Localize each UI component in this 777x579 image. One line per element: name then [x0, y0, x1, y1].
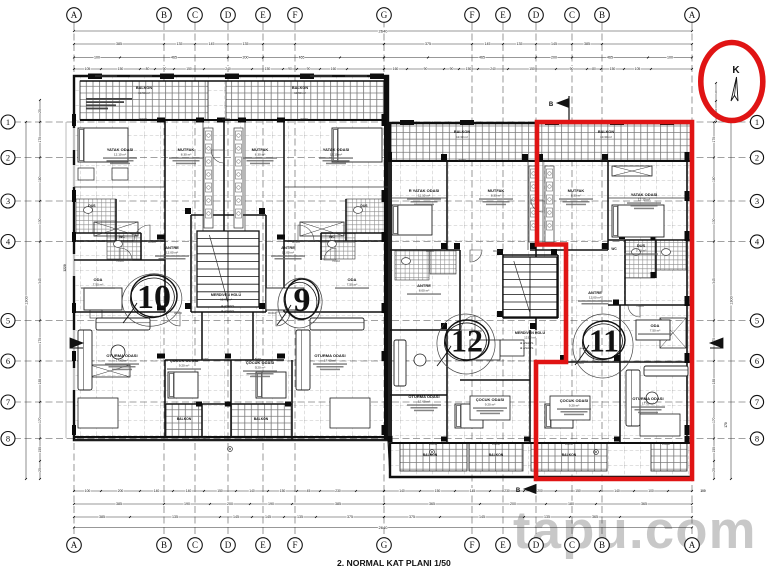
svg-text:150: 150	[38, 447, 42, 453]
svg-text:MUTFAK: MUTFAK	[568, 188, 585, 193]
svg-text:ODA: ODA	[651, 323, 660, 328]
svg-text:200: 200	[537, 489, 543, 493]
svg-text:1: 1	[755, 117, 759, 127]
svg-text:70/210: 70/210	[332, 259, 340, 263]
svg-text:90: 90	[424, 67, 428, 71]
svg-text:C: C	[192, 10, 198, 20]
svg-text:230: 230	[504, 489, 510, 493]
svg-text:BALKON: BALKON	[562, 453, 577, 457]
svg-text:145: 145	[470, 489, 476, 493]
svg-text:145: 145	[265, 515, 271, 519]
svg-text:5: 5	[6, 316, 10, 326]
svg-text:OTURMA ODASI: OTURMA ODASI	[408, 394, 439, 399]
svg-text:6: 6	[6, 356, 10, 366]
svg-text:365: 365	[592, 515, 598, 519]
svg-text:160/60: 160/60	[565, 442, 573, 446]
svg-text:F: F	[292, 540, 297, 550]
svg-text:80/60: 80/60	[202, 357, 209, 361]
svg-text:170: 170	[712, 137, 716, 143]
svg-text:B: B	[161, 540, 167, 550]
svg-text:G: G	[381, 540, 388, 550]
svg-text:90: 90	[307, 67, 311, 71]
svg-text:C: C	[569, 540, 575, 550]
svg-text:6: 6	[755, 356, 759, 366]
svg-text:DUS: DUS	[637, 243, 646, 248]
svg-text:70/210: 70/210	[116, 259, 124, 263]
svg-text:90/210: 90/210	[292, 240, 300, 244]
svg-text:375: 375	[347, 515, 353, 519]
svg-text:240: 240	[225, 67, 231, 71]
svg-text:150: 150	[435, 489, 441, 493]
svg-text:D: D	[225, 540, 232, 550]
svg-text:YATAK ODASI: YATAK ODASI	[323, 147, 350, 152]
svg-text:E: E	[260, 540, 266, 550]
svg-text:DUS: DUS	[88, 204, 96, 208]
svg-text:145: 145	[485, 42, 491, 46]
svg-text:12.10 m²: 12.10 m²	[638, 197, 650, 201]
svg-text:160/60: 160/60	[492, 442, 500, 446]
svg-text:375: 375	[409, 515, 415, 519]
svg-text:365: 365	[429, 502, 435, 506]
svg-text:5: 5	[755, 316, 759, 326]
svg-text:20: 20	[38, 468, 42, 472]
svg-text:MUTFAK: MUTFAK	[178, 147, 195, 152]
svg-text:180: 180	[568, 502, 574, 506]
svg-text:OTURMA ODASI: OTURMA ODASI	[314, 353, 345, 358]
svg-text:2: 2	[6, 153, 10, 163]
svg-text:190: 190	[268, 502, 274, 506]
svg-text:385: 385	[116, 502, 122, 506]
svg-text:90/210: 90/210	[268, 311, 276, 315]
svg-text:12.00 m²: 12.00 m²	[220, 298, 232, 302]
svg-text:150: 150	[217, 489, 223, 493]
svg-text:WC: WC	[611, 247, 617, 251]
svg-text:20: 20	[712, 468, 716, 472]
svg-text:145: 145	[209, 42, 215, 46]
svg-text:B: B	[599, 10, 605, 20]
svg-text:105: 105	[85, 67, 91, 71]
svg-text:385: 385	[584, 42, 590, 46]
svg-text:100: 100	[648, 489, 654, 493]
svg-text:10: 10	[137, 279, 171, 316]
svg-text:B: B	[549, 102, 554, 108]
svg-text:8.30 m²: 8.30 m²	[255, 152, 266, 156]
svg-text:345: 345	[712, 278, 716, 284]
svg-text:F: F	[469, 540, 474, 550]
svg-text:3: 3	[755, 196, 759, 206]
svg-text:135: 135	[177, 42, 183, 46]
svg-text:ÇOCUK ODASI: ÇOCUK ODASI	[476, 397, 504, 402]
svg-text:150: 150	[186, 67, 192, 71]
svg-text:145: 145	[233, 515, 239, 519]
svg-text:1: 1	[6, 117, 10, 127]
svg-text:8.30 m²: 8.30 m²	[491, 193, 502, 197]
svg-text:BALKON: BALKON	[136, 86, 152, 90]
svg-text:230: 230	[335, 489, 341, 493]
svg-text:465: 465	[607, 56, 613, 60]
svg-text:160: 160	[331, 67, 337, 71]
svg-text:E: E	[500, 540, 506, 550]
svg-text:150: 150	[575, 489, 581, 493]
svg-text:10.50 m²: 10.50 m²	[294, 91, 306, 95]
svg-text:90: 90	[288, 67, 292, 71]
svg-text:90: 90	[570, 67, 574, 71]
svg-text:7: 7	[6, 397, 10, 407]
svg-text:12.10 m²: 12.10 m²	[114, 152, 126, 156]
svg-text:25: 25	[38, 109, 42, 113]
svg-text:ANTRE: ANTRE	[281, 245, 295, 250]
svg-text:200/60: 200/60	[139, 117, 147, 121]
svg-text:150: 150	[280, 489, 286, 493]
svg-text:7.50 m²: 7.50 m²	[93, 282, 104, 286]
svg-text:170: 170	[38, 338, 42, 344]
svg-text:9.20 m²: 9.20 m²	[179, 363, 190, 367]
svg-text:100: 100	[85, 489, 91, 493]
svg-text:F: F	[292, 10, 297, 20]
svg-text:12.60 m²: 12.60 m²	[418, 399, 430, 403]
svg-text:20: 20	[714, 90, 718, 94]
svg-text:135: 135	[517, 42, 523, 46]
svg-text:150: 150	[610, 67, 616, 71]
svg-text:170: 170	[38, 417, 42, 423]
svg-text:160: 160	[393, 67, 399, 71]
svg-text:BALKON: BALKON	[254, 417, 269, 421]
svg-text:345: 345	[38, 278, 42, 284]
svg-text:B: B	[599, 540, 605, 550]
svg-text:185: 185	[38, 379, 42, 385]
svg-text:185: 185	[712, 379, 716, 385]
svg-text:45: 45	[307, 489, 311, 493]
svg-text:1300: 1300	[729, 296, 733, 304]
svg-text:1220: 1220	[63, 264, 67, 272]
svg-text:MERDIVEN HOLÜ: MERDIVEN HOLÜ	[211, 292, 242, 297]
svg-text:YATAK ODASI: YATAK ODASI	[631, 192, 658, 197]
svg-text:150: 150	[118, 67, 124, 71]
svg-text:170: 170	[724, 422, 728, 428]
svg-text:375: 375	[425, 42, 431, 46]
svg-text:8: 8	[6, 434, 10, 444]
svg-text:8: 8	[755, 434, 759, 444]
svg-text:12.10 m²: 12.10 m²	[330, 152, 342, 156]
svg-text:8.30 m²: 8.30 m²	[571, 193, 582, 197]
svg-text:R YATAK ODASI: R YATAK ODASI	[409, 188, 440, 193]
svg-text:385: 385	[116, 42, 122, 46]
svg-text:OTURMA ODASI: OTURMA ODASI	[106, 353, 137, 358]
svg-text:⊕ ASANS.: ⊕ ASANS.	[520, 346, 534, 350]
svg-text:12.00 m²: 12.00 m²	[166, 250, 178, 254]
svg-text:80: 80	[592, 67, 596, 71]
svg-text:465: 465	[479, 56, 485, 60]
svg-text:200: 200	[227, 502, 233, 506]
svg-text:A: A	[71, 10, 78, 20]
svg-text:2. NORMAL KAT PLANI 1/50: 2. NORMAL KAT PLANI 1/50	[337, 558, 451, 568]
svg-text:BALKON: BALKON	[177, 417, 192, 421]
svg-text:3: 3	[6, 196, 10, 206]
svg-text:365: 365	[641, 502, 647, 506]
svg-text:100: 100	[667, 56, 673, 60]
svg-text:385: 385	[99, 515, 105, 519]
svg-text:BALKON: BALKON	[292, 86, 308, 90]
svg-text:140: 140	[186, 489, 192, 493]
svg-text:150: 150	[265, 67, 271, 71]
svg-text:145: 145	[551, 42, 557, 46]
svg-text:OTURMA ODASI: OTURMA ODASI	[632, 396, 663, 401]
svg-text:BALKON: BALKON	[454, 130, 470, 134]
svg-text:F: F	[469, 10, 474, 20]
svg-text:ÇOCUK ODASI: ÇOCUK ODASI	[170, 358, 198, 363]
svg-text:145: 145	[479, 515, 485, 519]
svg-text:7.50 m²: 7.50 m²	[347, 282, 358, 286]
svg-text:170: 170	[712, 417, 716, 423]
svg-text:9: 9	[294, 282, 311, 319]
svg-text:YATAK ODASI: YATAK ODASI	[107, 147, 134, 152]
svg-text:180: 180	[712, 176, 716, 182]
svg-text:12: 12	[451, 323, 483, 359]
svg-text:D: D	[225, 10, 232, 20]
svg-text:170: 170	[38, 137, 42, 143]
svg-text:D: D	[533, 10, 540, 20]
svg-text:80/210: 80/210	[426, 249, 434, 253]
svg-text:200/60: 200/60	[300, 117, 308, 121]
svg-text:ANTRE: ANTRE	[588, 290, 602, 295]
svg-text:70/210: 70/210	[636, 304, 644, 308]
svg-text:ÇOCUK ODASI: ÇOCUK ODASI	[560, 398, 588, 403]
svg-text:160/60: 160/60	[429, 442, 437, 446]
svg-text:160/60: 160/60	[222, 117, 230, 121]
svg-text:BALKON: BALKON	[598, 130, 614, 134]
svg-text:465: 465	[299, 56, 305, 60]
svg-text:10.50 m²: 10.50 m²	[138, 91, 150, 95]
svg-text:80: 80	[146, 67, 150, 71]
svg-text:A: A	[689, 540, 696, 550]
svg-text:160/60: 160/60	[198, 436, 206, 440]
svg-text:MUTFAK: MUTFAK	[252, 147, 269, 152]
svg-text:190: 190	[184, 502, 190, 506]
svg-text:9.20 m²: 9.20 m²	[569, 403, 580, 407]
svg-text:A: A	[689, 10, 696, 20]
svg-text:E: E	[260, 10, 266, 20]
svg-text:BALKON: BALKON	[489, 453, 504, 457]
svg-text:12.00 m²: 12.00 m²	[282, 250, 294, 254]
svg-text:150: 150	[466, 67, 472, 71]
svg-text:90: 90	[450, 67, 454, 71]
svg-text:8.30 m²: 8.30 m²	[181, 152, 192, 156]
svg-text:D: D	[533, 540, 540, 550]
svg-text:MUTFAK: MUTFAK	[488, 188, 505, 193]
svg-text:2: 2	[755, 153, 759, 163]
svg-text:⊕ ASANS.: ⊕ ASANS.	[221, 309, 235, 313]
svg-text:G: G	[381, 10, 388, 20]
svg-text:90: 90	[163, 67, 167, 71]
svg-text:9.20 m²: 9.20 m²	[485, 402, 496, 406]
svg-text:⊕ ASANS.: ⊕ ASANS.	[520, 341, 534, 345]
svg-text:135: 135	[243, 42, 249, 46]
svg-text:17.60 m²: 17.60 m²	[116, 358, 128, 362]
svg-text:100: 100	[700, 489, 706, 493]
svg-text:140: 140	[399, 489, 405, 493]
svg-text:A: A	[71, 540, 78, 550]
svg-text:B: B	[161, 10, 167, 20]
svg-text:8.00 m²: 8.00 m²	[419, 288, 430, 292]
svg-text:200/60: 200/60	[600, 158, 608, 162]
svg-text:2640: 2640	[379, 525, 389, 530]
svg-text:B: B	[516, 488, 521, 494]
svg-text:200/60: 200/60	[458, 158, 466, 162]
svg-text:385: 385	[335, 502, 341, 506]
svg-text:135: 135	[297, 515, 303, 519]
svg-text:200: 200	[510, 502, 516, 506]
svg-text:11.10 m²: 11.10 m²	[418, 193, 430, 197]
svg-text:17.60 m²: 17.60 m²	[642, 401, 654, 405]
svg-text:200: 200	[118, 489, 124, 493]
svg-text:200: 200	[551, 56, 557, 60]
svg-text:9.20 m²: 9.20 m²	[255, 365, 266, 369]
svg-text:105: 105	[635, 67, 641, 71]
svg-text:DUS: DUS	[360, 204, 368, 208]
svg-text:ODA: ODA	[94, 277, 103, 282]
svg-text:200: 200	[243, 56, 249, 60]
svg-text:ANTRE: ANTRE	[165, 245, 179, 250]
svg-text:90/210: 90/210	[493, 249, 501, 253]
svg-text:150: 150	[529, 67, 535, 71]
svg-text:90/210: 90/210	[148, 240, 156, 244]
svg-text:130: 130	[712, 218, 716, 224]
svg-text:135: 135	[544, 515, 550, 519]
svg-text:C: C	[192, 540, 198, 550]
svg-text:7: 7	[755, 397, 759, 407]
svg-text:12.00 m²: 12.00 m²	[524, 336, 536, 340]
svg-text:130: 130	[38, 218, 42, 224]
svg-text:140: 140	[154, 489, 160, 493]
svg-text:MERDIVEN HOLÜ: MERDIVEN HOLÜ	[515, 330, 546, 335]
svg-text:140: 140	[249, 489, 255, 493]
svg-text:7.50 m²: 7.50 m²	[650, 328, 661, 332]
svg-text:WC: WC	[329, 235, 335, 239]
svg-text:11: 11	[589, 323, 619, 359]
svg-text:WC: WC	[119, 235, 125, 239]
svg-text:ODA: ODA	[348, 277, 357, 282]
svg-text:K: K	[732, 65, 740, 76]
svg-text:3.10 m²: 3.10 m²	[636, 248, 647, 252]
svg-text:160/60: 160/60	[258, 436, 266, 440]
svg-text:150: 150	[712, 447, 716, 453]
svg-text:E: E	[500, 10, 506, 20]
svg-text:120/60: 120/60	[662, 442, 670, 446]
svg-text:240: 240	[490, 67, 496, 71]
svg-text:2640: 2640	[379, 28, 389, 33]
svg-text:180: 180	[38, 176, 42, 182]
svg-text:17.60 m²: 17.60 m²	[324, 358, 336, 362]
svg-text:13.30 m²: 13.30 m²	[456, 135, 468, 139]
svg-text:100: 100	[94, 56, 100, 60]
svg-text:1300: 1300	[24, 296, 28, 304]
svg-text:13.30 m²: 13.30 m²	[600, 135, 612, 139]
svg-text:135: 135	[172, 515, 178, 519]
svg-text:tapu.com: tapu.com	[513, 501, 757, 560]
svg-text:465: 465	[171, 56, 177, 60]
svg-text:C: C	[569, 10, 575, 20]
svg-text:80/60: 80/60	[255, 357, 262, 361]
svg-text:⊕ ASANS.: ⊕ ASANS.	[221, 304, 235, 308]
svg-text:12.00 m²: 12.00 m²	[589, 295, 601, 299]
svg-text:140: 140	[614, 489, 620, 493]
svg-text:ANTRE: ANTRE	[417, 283, 431, 288]
